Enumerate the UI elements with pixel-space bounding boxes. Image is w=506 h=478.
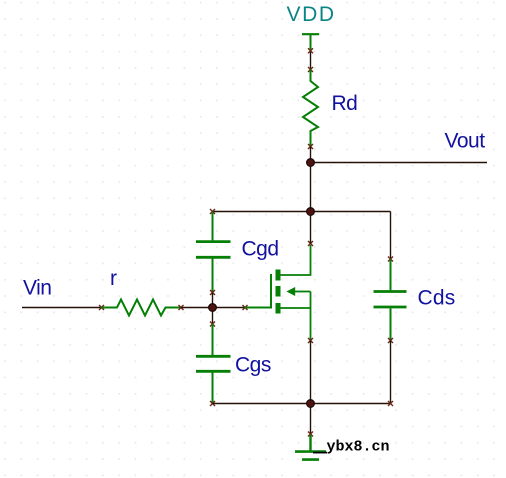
wire gate node to MOSFET gate pin bbox=[213, 307, 246, 309]
junction J4 (source/ground node) bbox=[307, 400, 315, 408]
wire gate node down to Cgs bbox=[212, 308, 214, 325]
svg-text:ybx8.cn: ybx8.cn bbox=[327, 439, 390, 456]
svg-text:Cds: Cds bbox=[418, 287, 456, 310]
pin marker X7 (Cgd pin 2) bbox=[210, 290, 215, 295]
pin marker X8 (r pin 1) bbox=[99, 305, 104, 310]
resistor Rd bbox=[303, 70, 318, 147]
wire top rail horizontal bbox=[213, 211, 391, 213]
wire VDD to Rd pin1 bbox=[310, 52, 312, 70]
capacitor Cgs bbox=[196, 324, 231, 404]
ground bbox=[295, 435, 326, 460]
resistor r bbox=[102, 300, 182, 316]
pin marker X1 (VDD power pin) bbox=[308, 48, 313, 53]
wire Vin lead-in bbox=[22, 307, 102, 309]
svg-text:Vout: Vout bbox=[445, 130, 486, 153]
capacitor Cgd bbox=[196, 212, 231, 292]
pin marker X10 (MOSFET gate pin) bbox=[243, 305, 248, 310]
pin marker X4 (Cgd pin 1 on rail) bbox=[210, 209, 215, 214]
pin marker X5 (Cds pin 1) bbox=[388, 257, 393, 262]
wire source pin down to bottom rail node bbox=[310, 341, 312, 404]
wire r pin2 to gate node bbox=[181, 307, 213, 309]
svg-text:r: r bbox=[110, 267, 117, 290]
pin marker X6 (Cds pin 2) bbox=[388, 338, 393, 343]
pin marker X13 (Cgs pin 1) bbox=[210, 322, 215, 327]
junction J3 (gate node) bbox=[209, 304, 217, 312]
junction J1 (Vout node) bbox=[307, 159, 315, 167]
junction J2 (drain rail node) bbox=[307, 208, 315, 216]
svg-text:Vin: Vin bbox=[23, 277, 51, 300]
wire bottom rail horizontal bbox=[213, 403, 391, 405]
svg-text:Cgd: Cgd bbox=[242, 238, 279, 261]
wire Cds pin2 down to bottom rail bbox=[390, 341, 392, 404]
svg-text:Rd: Rd bbox=[332, 92, 358, 115]
pin marker X11 (MOSFET drain pin) bbox=[308, 241, 313, 246]
wire Vout horizontal bbox=[311, 162, 488, 164]
wire Cgd pin2 to gate node bbox=[212, 293, 214, 308]
wire Rd pin2 to Vout node bbox=[310, 147, 312, 163]
wire drain rail node down to drain pin bbox=[310, 212, 312, 244]
wire Vout node down to drain rail bbox=[310, 163, 312, 212]
pin marker X9 (r pin 2) bbox=[179, 305, 184, 310]
watermark underscore bbox=[313, 452, 327, 454]
power port VDD (T-bar symbol) bbox=[302, 34, 319, 49]
transistor M1 (NMOS) bbox=[245, 245, 311, 340]
pin marker X14 (Cgs pin 2 on bottom rail) bbox=[210, 401, 215, 406]
pin marker X16 (ground pin) bbox=[308, 432, 313, 437]
pin marker X2 (Rd pin 1) bbox=[308, 67, 313, 72]
svg-text:Cgs: Cgs bbox=[235, 354, 271, 377]
wire ground node down to ground pin bbox=[310, 404, 312, 435]
capacitor Cds bbox=[374, 260, 407, 340]
pin marker X3 (Rd pin 2) bbox=[308, 144, 313, 149]
svg-text:VDD: VDD bbox=[287, 3, 336, 26]
wire right rail drop to Cds bbox=[390, 212, 392, 260]
pin marker X15 (bottom rail right corner) bbox=[388, 401, 393, 406]
pin marker X12 (MOSFET source pin) bbox=[308, 338, 313, 343]
